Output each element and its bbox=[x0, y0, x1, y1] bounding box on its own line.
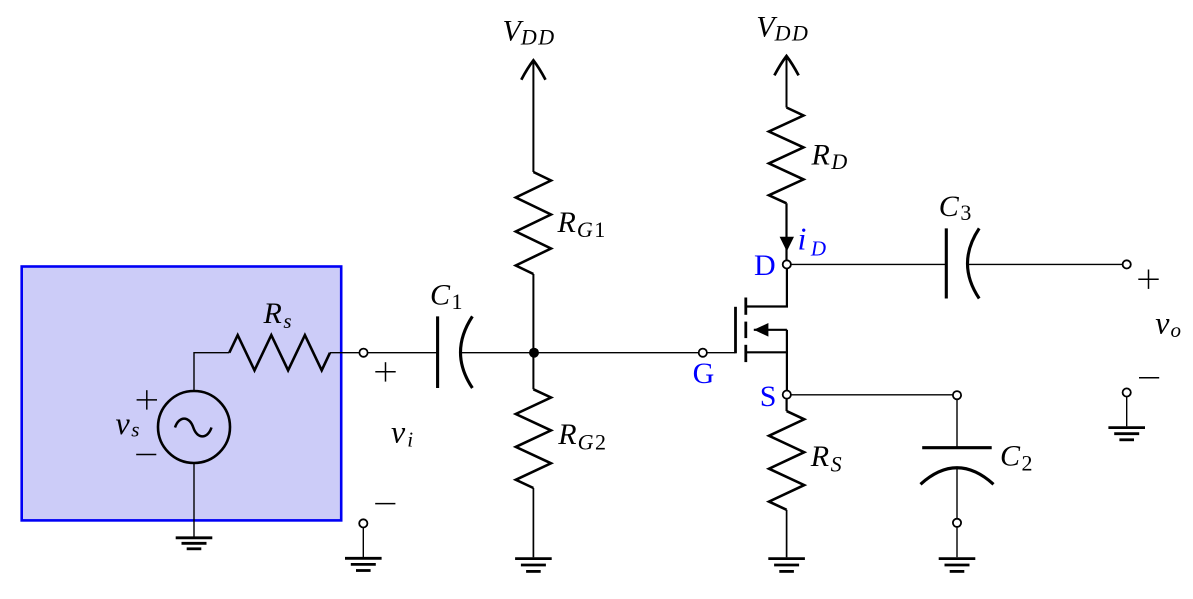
svg-text:G: G bbox=[693, 357, 715, 390]
plus sign vs bbox=[137, 390, 157, 409]
node junction dot bbox=[529, 348, 539, 358]
transistor M1 channel bars bbox=[744, 298, 747, 363]
wire C2 terminal to plate bbox=[956, 400, 958, 447]
wire G lead bbox=[707, 352, 735, 354]
svg-text:vi: vi bbox=[391, 413, 413, 451]
wire D to C3 bbox=[791, 263, 946, 265]
svg-text:RS: RS bbox=[810, 440, 842, 476]
node vi plus terminal bbox=[359, 349, 367, 357]
resistor RG1 bbox=[516, 172, 551, 274]
transistor M1 bulk arrow bbox=[754, 323, 787, 337]
transistor M1 gate bar bbox=[734, 307, 737, 354]
source network shaded box bbox=[22, 267, 342, 521]
wire RS to ground bbox=[786, 510, 788, 558]
wire vi+ to C1 bbox=[368, 352, 437, 354]
plus sign vo bbox=[1138, 270, 1158, 289]
voltage source vs bbox=[158, 391, 230, 463]
wire VDD left to RG1 bbox=[532, 61, 534, 172]
transistor M1 source lead bbox=[746, 330, 787, 390]
capacitor C2 bbox=[921, 448, 994, 485]
wire RG1 to junction bbox=[532, 274, 534, 353]
resistor RS bbox=[769, 411, 804, 510]
wire S to C2 terminal bbox=[791, 394, 952, 396]
minus sign vs bbox=[136, 454, 156, 456]
node C2 top terminal bbox=[953, 391, 961, 399]
svg-text:D: D bbox=[754, 249, 776, 282]
plus sign vi bbox=[375, 362, 395, 381]
node vi minus terminal bbox=[359, 519, 367, 527]
ground under C2 bbox=[939, 559, 976, 572]
wire vs bottom lead bbox=[193, 463, 195, 537]
wire S to RS bbox=[785, 399, 787, 411]
svg-text:VDD: VDD bbox=[756, 11, 809, 46]
wire junction to G terminal bbox=[534, 352, 698, 354]
node vo minus terminal bbox=[1123, 388, 1131, 396]
power VDD right arrow bbox=[774, 56, 798, 75]
ground under RS bbox=[768, 559, 805, 572]
minus sign vi bbox=[375, 503, 395, 505]
wire Rs to vi+ terminal bbox=[330, 352, 359, 354]
wire RD to D node bbox=[785, 203, 787, 259]
resistor RG2 bbox=[516, 389, 551, 488]
svg-text:C3: C3 bbox=[939, 190, 972, 225]
node C2 bottom terminal bbox=[953, 519, 961, 527]
node G terminal bbox=[699, 349, 707, 357]
node S terminal bbox=[783, 391, 791, 399]
resistor Rs bbox=[229, 335, 330, 370]
svg-text:vo: vo bbox=[1155, 304, 1181, 342]
ground under vo bbox=[1108, 428, 1145, 440]
svg-text:iD: iD bbox=[798, 221, 827, 261]
svg-text:RG2: RG2 bbox=[557, 418, 606, 454]
wire C1 to junction bbox=[461, 352, 535, 354]
svg-text:C2: C2 bbox=[1000, 440, 1033, 476]
svg-text:VDD: VDD bbox=[503, 14, 556, 49]
svg-text:C1: C1 bbox=[430, 278, 463, 314]
transistor M1 drain lead bbox=[746, 269, 787, 307]
svg-text:RG1: RG1 bbox=[557, 206, 606, 242]
wire RG2 to ground bbox=[532, 488, 534, 557]
wire C2 to bottom terminal bbox=[956, 468, 958, 518]
node vo plus terminal bbox=[1123, 260, 1131, 268]
ground under vs bbox=[176, 538, 213, 549]
wire C3 to vo terminal bbox=[968, 263, 1123, 265]
current arrow iD bbox=[780, 237, 794, 252]
wire VDD right to RD bbox=[786, 57, 788, 108]
node D terminal bbox=[783, 260, 791, 268]
capacitor C1 bbox=[438, 316, 473, 388]
wire vo minus to ground bbox=[1126, 397, 1128, 426]
ground under vi bbox=[345, 558, 382, 570]
wire junction to RG2 bbox=[532, 353, 534, 390]
wire vi minus to ground bbox=[362, 528, 364, 557]
minus sign vo bbox=[1139, 377, 1159, 379]
resistor RD bbox=[769, 108, 804, 204]
wire vs top lead bbox=[194, 353, 229, 391]
capacitor C3 bbox=[946, 228, 979, 298]
svg-text:RD: RD bbox=[811, 139, 848, 174]
power VDD left arrow bbox=[521, 60, 545, 79]
svg-text:S: S bbox=[760, 380, 777, 413]
ground under RG2 bbox=[515, 559, 552, 572]
wire C2 bottom terminal to ground bbox=[956, 527, 958, 557]
